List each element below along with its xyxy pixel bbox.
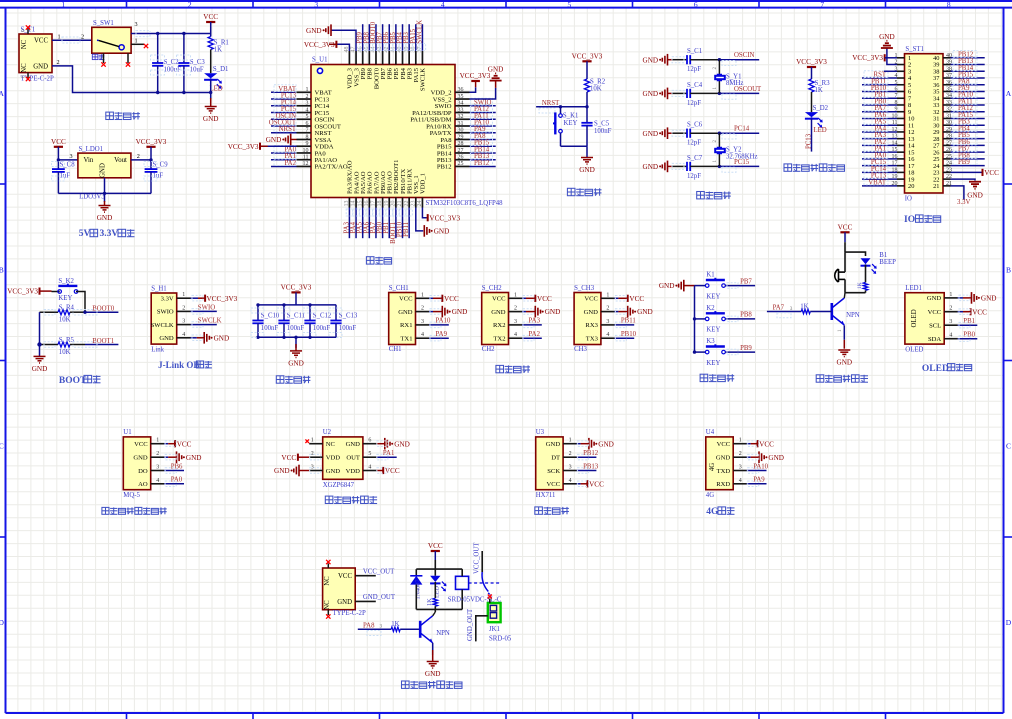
svg-text:VCC: VCC	[338, 573, 352, 580]
svg-text:GND: GND	[643, 56, 659, 64]
resistor alarm 1K vertical	[863, 282, 867, 290]
svg-text:VCC: VCC	[759, 440, 774, 448]
svg-text:S_R5: S_R5	[59, 337, 75, 344]
svg-text:VCC_OUT: VCC_OUT	[473, 542, 480, 574]
svg-text:GND: GND	[879, 33, 895, 41]
svg-text:100nF: 100nF	[339, 325, 357, 332]
svg-text:CH2: CH2	[482, 346, 495, 353]
net PB6 wire U1	[164, 470, 184, 472]
svg-text:OLED: OLED	[911, 309, 918, 327]
node cap C3 top	[182, 32, 185, 35]
svg-text:VCC_3V3: VCC_3V3	[429, 214, 460, 222]
resistor S_R3 1K	[809, 79, 814, 92]
svg-text:12pF: 12pF	[687, 66, 701, 73]
svg-text:GND_OUT: GND_OUT	[363, 594, 396, 601]
ground GND relay	[425, 662, 441, 679]
svg-text:VDD: VDD	[346, 468, 361, 475]
svg-text:10K: 10K	[590, 86, 602, 93]
svg-text:27: 27	[458, 148, 464, 154]
label 继电器控制电路	[402, 681, 463, 688]
svg-text:S_CH3: S_CH3	[574, 285, 595, 292]
svg-text:SCL: SCL	[929, 323, 941, 330]
svg-text:VCC: VCC	[984, 169, 999, 177]
switch S_SW1	[92, 27, 131, 53]
svg-text:1: 1	[739, 438, 742, 444]
svg-text:PB12: PB12	[437, 164, 452, 171]
svg-text:OLED: OLED	[905, 346, 923, 353]
svg-text:NC: NC	[21, 39, 28, 49]
svg-text:VCC_3V3: VCC_3V3	[136, 138, 167, 146]
svg-text:S_R1: S_R1	[214, 40, 229, 47]
node button rail	[693, 317, 696, 320]
svg-text:VCC: VCC	[399, 296, 413, 303]
label 称重模块	[535, 507, 569, 514]
svg-text:9: 9	[306, 141, 309, 147]
pin TYPE-C bottom no-connect	[327, 610, 329, 615]
chip top net wires	[357, 20, 426, 51]
rail buttons	[694, 286, 696, 353]
connector S_CH2 body	[482, 293, 509, 345]
svg-text:NC: NC	[326, 441, 336, 448]
svg-text:B: B	[1006, 265, 1011, 274]
net VCC_OUT wire typec	[355, 575, 376, 577]
svg-text:+: +	[834, 271, 837, 277]
svg-text:GND: GND	[133, 455, 148, 462]
svg-text:Vout: Vout	[114, 157, 127, 164]
net PC15 wire	[719, 165, 759, 167]
switch pin1 no-connect	[131, 43, 144, 45]
svg-text:6: 6	[306, 121, 309, 127]
svg-text:Link: Link	[151, 346, 164, 353]
capacitor S_C5 100nF	[586, 107, 588, 123]
svg-text:K2: K2	[706, 305, 715, 312]
net PC14 wire	[719, 132, 759, 134]
ground GND LDO	[104, 193, 106, 202]
svg-text:GND: GND	[159, 335, 174, 342]
svg-text:PA8: PA8	[363, 622, 375, 629]
label 晶振电路	[697, 192, 731, 199]
label 电源电路	[106, 112, 140, 119]
svg-text:NPN: NPN	[436, 630, 450, 637]
power VCC S_CH3 pin1	[614, 297, 618, 299]
svg-text:5V: 5V	[79, 229, 91, 239]
svg-text:20: 20	[390, 201, 396, 207]
svg-text:4G: 4G	[706, 492, 714, 499]
net OSCOUT wire	[719, 92, 759, 94]
ground GND buttons	[659, 280, 684, 292]
net PA9 wire S_CH1 pin4	[429, 337, 449, 339]
svg-text:PB10: PB10	[621, 331, 637, 338]
svg-text:GND: GND	[97, 214, 113, 222]
ground GND at VSSA pin8	[291, 138, 297, 140]
capacitor S_C1 12pF	[687, 55, 690, 64]
capacitor S_C10 100nF	[257, 305, 259, 321]
connector S_ST1 body	[905, 54, 944, 193]
resistor relay 1K	[433, 598, 437, 606]
ground GND U1	[164, 456, 168, 458]
svg-text:VCC_3V3: VCC_3V3	[207, 295, 238, 303]
module U2 stubs	[309, 438, 376, 471]
power VCC ST1 pin23	[951, 171, 983, 173]
svg-text:0: 0	[21, 75, 27, 78]
net GND_OUT wire JK1	[476, 616, 488, 642]
module U3 HX711 body	[536, 437, 563, 490]
resistor S_R2 10K	[584, 79, 589, 92]
connector S_H1 body	[151, 293, 177, 344]
svg-text:GND: GND	[768, 454, 784, 462]
svg-text:12: 12	[303, 161, 309, 167]
net BOOT1 wire	[85, 344, 118, 346]
ground GND S_CH1 pin2	[429, 311, 433, 313]
svg-text:D: D	[1006, 618, 1012, 627]
display LED1 OLED body	[905, 293, 944, 344]
svg-text:VCC: VCC	[385, 467, 400, 475]
svg-text:VDD_1: VDD_1	[420, 173, 427, 194]
label 程序运行指示灯	[784, 164, 845, 171]
label IO拓展口	[904, 215, 915, 225]
svg-text:S_C5: S_C5	[594, 121, 610, 128]
svg-text:17: 17	[371, 201, 377, 207]
svg-text:VCC: VCC	[589, 480, 604, 488]
net PA10 wire U4	[747, 470, 767, 472]
svg-text:GND: GND	[203, 115, 219, 123]
svg-text:2: 2	[182, 305, 185, 311]
svg-text:12pF: 12pF	[687, 100, 701, 107]
node NRST junction	[585, 105, 588, 108]
wire ST1 pin3	[884, 70, 897, 72]
svg-text:GND: GND	[346, 441, 361, 448]
svg-text:TXD: TXD	[717, 468, 731, 475]
svg-text:GND: GND	[584, 309, 599, 316]
svg-text:VCC: VCC	[972, 308, 987, 316]
svg-text:NC: NC	[21, 63, 28, 73]
LED S_D2	[805, 112, 823, 128]
svg-text:20: 20	[908, 183, 914, 190]
svg-text:36: 36	[458, 87, 464, 93]
svg-text:1: 1	[135, 38, 138, 45]
wire filter bottom rail	[257, 336, 336, 338]
svg-text:12pF: 12pF	[687, 173, 701, 180]
chip bottom net wires	[343, 208, 412, 244]
svg-text:10K: 10K	[59, 349, 71, 356]
button K1 KEY	[695, 285, 706, 287]
svg-text:PB9: PB9	[958, 159, 970, 166]
svg-text:S_C9: S_C9	[153, 161, 169, 168]
svg-text:1K: 1K	[857, 282, 863, 289]
svg-text:U1: U1	[123, 429, 131, 436]
svg-text:GND: GND	[643, 130, 659, 138]
svg-text:32: 32	[458, 114, 464, 120]
svg-text:S_C4: S_C4	[687, 82, 703, 89]
svg-text:2: 2	[188, 0, 192, 9]
svg-text:C: C	[1006, 442, 1011, 451]
power VCC U2 pin4	[376, 467, 399, 475]
svg-text:PA10: PA10	[753, 463, 768, 470]
module U3 stubs	[563, 438, 577, 484]
svg-text:LED: LED	[814, 127, 827, 134]
ground GND boot	[32, 356, 48, 373]
button S_K1 KEY	[560, 107, 562, 114]
node cap C2 top	[156, 32, 159, 35]
svg-text:1: 1	[182, 292, 185, 298]
capacitor S_C7 12pF	[687, 162, 690, 171]
svg-text:KEY: KEY	[706, 293, 720, 300]
svg-text:GND: GND	[32, 365, 48, 373]
wire Vin	[58, 159, 78, 161]
svg-text:GND: GND	[394, 440, 410, 448]
module U4 stubs	[733, 438, 747, 484]
svg-text:RXD: RXD	[716, 481, 730, 488]
switch bottom pins no-connect	[103, 53, 105, 63]
resistor 1K alarm base	[801, 309, 810, 313]
svg-text:26: 26	[458, 155, 464, 161]
svg-text:PB11: PB11	[403, 222, 410, 237]
svg-text:VCC: VCC	[584, 296, 598, 303]
svg-text:J-Link OB: J-Link OB	[158, 360, 199, 370]
connector S_CH3 body	[574, 293, 601, 345]
svg-text:2: 2	[81, 34, 84, 41]
ground GND alarm	[837, 350, 853, 367]
button S_K2 KEY	[52, 291, 60, 293]
svg-text:GND_OUT: GND_OUT	[467, 608, 474, 641]
svg-text:100nF: 100nF	[287, 325, 305, 332]
svg-text:GND: GND	[452, 308, 468, 316]
svg-text:3: 3	[949, 319, 952, 325]
ground GND S_C4	[643, 88, 668, 100]
svg-text:PB11: PB11	[621, 318, 636, 325]
svg-text:NPN: NPN	[846, 312, 860, 319]
svg-text:MQ-5: MQ-5	[123, 492, 140, 499]
svg-text:2: 2	[739, 451, 742, 457]
wire GND rail bottom	[52, 66, 211, 93]
node D1 bottom	[209, 91, 212, 94]
svg-text:4: 4	[606, 332, 609, 338]
transistor NPN relay	[420, 616, 433, 643]
svg-text:S_K1: S_K1	[563, 113, 579, 120]
svg-text:VCC_3V3: VCC_3V3	[7, 288, 38, 296]
power VCC U4	[747, 443, 751, 445]
connector S_H1 stubs	[177, 292, 191, 338]
ground GND U2 pin6	[376, 443, 384, 445]
svg-text:RX3: RX3	[585, 322, 598, 329]
svg-text:PA9: PA9	[436, 331, 448, 338]
svg-text:GND: GND	[546, 441, 561, 448]
svg-text:KEY: KEY	[564, 120, 578, 127]
ic U1 STM32F103C8T6_LQFP48 body	[311, 65, 455, 198]
ground GND reset	[586, 146, 588, 157]
ground GND S_CH3 pin2	[614, 311, 618, 313]
svg-text:RX2: RX2	[493, 322, 505, 329]
power VCC_3V3 filter	[281, 283, 312, 292]
net PB7 wire	[725, 285, 755, 287]
svg-text:GND: GND	[491, 309, 506, 316]
net BOOT0 wire	[83, 311, 86, 314]
svg-text:4: 4	[569, 478, 572, 484]
capacitor S_C2 100uF	[157, 34, 159, 64]
power VCC at LDO input	[51, 138, 66, 147]
svg-text:4: 4	[441, 0, 445, 9]
label 复位电路	[567, 188, 601, 195]
svg-text:TYPE-C-2P: TYPE-C-2P	[333, 610, 366, 617]
svg-text:S_R4: S_R4	[59, 305, 75, 312]
svg-text:S_C7: S_C7	[687, 155, 703, 162]
svg-text:VCC: VCC	[629, 295, 644, 303]
svg-text:NRST: NRST	[279, 126, 297, 133]
svg-text:GND: GND	[186, 454, 202, 462]
ground GND S_C7	[643, 161, 668, 173]
svg-text:22: 22	[404, 201, 410, 207]
ground GND OLED pin1	[958, 297, 963, 299]
svg-text:PA10: PA10	[436, 318, 451, 325]
svg-text:3: 3	[606, 319, 609, 325]
svg-text:LED1: LED1	[905, 285, 922, 292]
svg-text:BEEP: BEEP	[879, 259, 896, 266]
svg-text:1: 1	[569, 438, 572, 444]
svg-text:4: 4	[949, 333, 952, 339]
node filter gnd stem	[294, 336, 297, 339]
chip right net wires	[470, 98, 496, 167]
svg-text:VCC: VCC	[428, 542, 443, 550]
svg-text:CH3: CH3	[574, 346, 587, 353]
svg-text:1K: 1K	[426, 598, 433, 606]
svg-text:GND: GND	[837, 359, 853, 367]
transistor NPN alarm	[832, 298, 845, 325]
ST1 left net wires	[862, 71, 897, 187]
svg-text:5: 5	[567, 0, 571, 9]
connector TYPE-C-2P relay	[323, 568, 356, 610]
svg-text:PB9: PB9	[740, 345, 752, 352]
svg-text:S_H1: S_H1	[151, 285, 167, 292]
chip pin names	[315, 67, 453, 194]
svg-text:3: 3	[514, 319, 517, 325]
svg-text:U2: U2	[323, 429, 332, 436]
svg-text:NC: NC	[324, 600, 331, 610]
power VCC S_CH2 pin1	[522, 297, 526, 299]
svg-text:GND: GND	[100, 163, 107, 178]
svg-text:23: 23	[410, 201, 416, 207]
svg-text:VCC: VCC	[177, 440, 192, 448]
svg-text:3: 3	[135, 21, 138, 28]
svg-text:SWIO: SWIO	[157, 309, 174, 316]
wire T1 VCC to SW1 pin2	[52, 39, 92, 41]
svg-text:VCC_3V3: VCC_3V3	[852, 54, 883, 62]
svg-text:Vin: Vin	[84, 157, 94, 164]
label 按键电路	[700, 374, 734, 381]
net PB0 wire OLED	[958, 338, 978, 340]
svg-text:1K: 1K	[391, 621, 399, 628]
svg-text:VCC_3V3: VCC_3V3	[460, 72, 491, 80]
svg-text:5: 5	[306, 114, 309, 120]
capacitor S_C11 100nF	[283, 305, 285, 321]
ST1 right net wires	[951, 51, 985, 167]
svg-text:1: 1	[306, 87, 309, 93]
svg-text:12pF: 12pF	[687, 140, 701, 147]
relay switch arm	[482, 572, 491, 595]
power VCC_3V3 H1 pin1	[191, 297, 199, 299]
svg-text:GND: GND	[266, 136, 282, 144]
net PA10 wire S_CH1 pin3	[429, 324, 449, 326]
diode 1N4007	[415, 569, 417, 576]
svg-text:GND: GND	[643, 163, 659, 171]
svg-text:6: 6	[368, 438, 371, 444]
wire SW1 pin3 to VCC rail	[135, 21, 138, 28]
power VCC_3V3 at LDO output	[136, 138, 167, 147]
svg-text:4G: 4G	[709, 463, 716, 471]
crystal S_Y2 32.768KHz	[718, 132, 721, 135]
svg-text:2: 2	[606, 306, 609, 312]
svg-text:2: 2	[57, 59, 60, 66]
svg-text:S_K2: S_K2	[58, 278, 74, 285]
power VCC_3V3 at VDD_2 pin36	[470, 87, 476, 92]
svg-text:GND: GND	[488, 66, 504, 74]
svg-text:S_C3: S_C3	[190, 59, 206, 66]
svg-text:VCC: VCC	[281, 454, 296, 462]
svg-text:1K: 1K	[800, 303, 808, 310]
svg-text:100nF: 100nF	[594, 128, 612, 135]
net GND_OUT wire typec	[355, 600, 376, 602]
svg-text:C: C	[0, 442, 4, 451]
svg-text:S_LDO1: S_LDO1	[79, 146, 104, 153]
net PC13 wire	[811, 119, 813, 152]
wire LDO ground rail	[58, 192, 151, 194]
ground GND ST1 pin2	[887, 48, 897, 65]
svg-text:OSCIN: OSCIN	[734, 52, 754, 59]
net PA8 wire	[363, 622, 375, 629]
svg-text:KEY: KEY	[58, 295, 72, 302]
svg-text:SWCLK: SWCLK	[420, 68, 427, 91]
svg-text:VCC: VCC	[492, 296, 506, 303]
net PA2 wire S_CH2 pin4	[522, 337, 542, 339]
ground GND S_C1	[643, 54, 668, 66]
svg-text:S_SW1: S_SW1	[93, 20, 114, 27]
svg-text:OUT: OUT	[346, 455, 360, 462]
svg-text:PB12: PB12	[474, 160, 490, 167]
node C3 bottom	[182, 91, 185, 94]
svg-text:TX1: TX1	[400, 336, 412, 343]
svg-text:3: 3	[306, 101, 309, 107]
capacitor S_C6 12pF	[687, 129, 690, 138]
svg-text:31: 31	[458, 121, 464, 127]
svg-text:TX2: TX2	[493, 336, 505, 343]
svg-text:K3: K3	[706, 338, 715, 345]
svg-text:3.3V: 3.3V	[100, 229, 119, 239]
svg-text:2: 2	[306, 94, 309, 100]
ground GND at VSS_3 pin47	[331, 30, 356, 51]
svg-text:GND: GND	[716, 455, 731, 462]
svg-text:VCC: VCC	[134, 441, 148, 448]
power VCC above R1	[203, 13, 218, 22]
svg-text:15: 15	[357, 201, 363, 207]
svg-text:TX3: TX3	[586, 336, 599, 343]
svg-text:KEY: KEY	[706, 327, 720, 334]
svg-text:JK1: JK1	[489, 626, 500, 633]
ground GND power circuit	[210, 93, 212, 100]
svg-text:U4: U4	[706, 429, 715, 436]
svg-text:VCC_3V3: VCC_3V3	[281, 283, 312, 291]
wire relay emitter to gnd	[432, 643, 434, 655]
wire relay bottom rail	[416, 608, 462, 610]
svg-text:3: 3	[70, 153, 73, 160]
svg-text:K1: K1	[706, 272, 714, 279]
wire Vout	[131, 159, 151, 161]
svg-text:1: 1	[514, 292, 517, 298]
svg-text:100nF: 100nF	[261, 325, 279, 332]
pin TYPE-C top no-connect	[327, 564, 329, 569]
label J-Link OB接口	[158, 360, 199, 370]
svg-text:100nF: 100nF	[313, 325, 331, 332]
wire relay no contact to JK1 pin1	[489, 599, 491, 604]
svg-text:PC13: PC13	[805, 133, 812, 149]
